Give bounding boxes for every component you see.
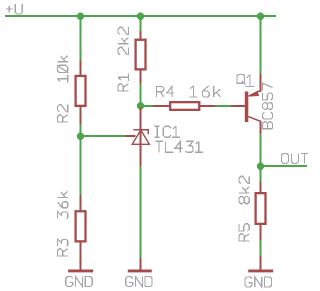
- label R1: [118, 73, 128, 91]
- wire: middle column anode to GND: [140, 166, 142, 258]
- label R5: [239, 224, 249, 241]
- value 16k: [189, 86, 220, 97]
- label Q1: [237, 75, 255, 87]
- label IC1: [155, 126, 180, 137]
- label GND middle: [126, 277, 152, 287]
- label R2: [58, 105, 68, 122]
- node OUT label: [282, 153, 309, 163]
- wire: middle column rail to R1: [140, 16, 142, 31]
- junction rail-R1: [137, 13, 144, 20]
- wire: right column Q1 collector to OUT node: [260, 134, 262, 182]
- junction rail-Q1: [257, 13, 264, 20]
- label GND right: [245, 277, 271, 287]
- junction REF node: [77, 133, 84, 140]
- value 8k2: [239, 176, 249, 203]
- junction cathode-R4 node: [137, 102, 144, 109]
- wire: cathode node to R4: [141, 105, 154, 107]
- wire: middle column R1 to cathode node: [140, 84, 142, 107]
- junction rail-R2: [77, 13, 84, 20]
- wire: REF node horizontal: [81, 135, 126, 137]
- node +U label: [6, 4, 22, 14]
- resistor R1: [136, 31, 146, 84]
- wire: R4 to Q1 base: [215, 105, 231, 107]
- value 36k: [58, 191, 68, 218]
- transistor Q1 BC857: [231, 74, 261, 134]
- resistor R2: [76, 61, 86, 125]
- junction OUT node: [257, 163, 264, 170]
- ground GND right: [248, 256, 273, 271]
- value TL431: [155, 141, 203, 152]
- resistor R3: [76, 195, 86, 271]
- wire: right column rail to Q1 emitter: [260, 16, 262, 74]
- resistor R5: [256, 182, 266, 241]
- label GND left: [66, 277, 92, 287]
- label R3: [58, 239, 68, 256]
- value BC857: [263, 83, 273, 128]
- wire: left column from rail to R2: [80, 16, 82, 61]
- wire: OUT horizontal: [261, 165, 308, 167]
- label R4: [157, 86, 175, 97]
- value 10k: [57, 56, 68, 83]
- wire: +U top rail: [5, 15, 276, 17]
- resistor R4: [153, 102, 215, 110]
- wire: right column R5 to GND: [260, 240, 262, 256]
- wire: left column R2 to R3 through REF node: [80, 124, 82, 195]
- ground GND middle: [128, 258, 152, 271]
- ground GND left: [68, 269, 93, 272]
- shunt regulator IC1 TL431 (zener-style symbol with REF pin): [125, 107, 149, 166]
- value 2k2: [118, 27, 128, 54]
